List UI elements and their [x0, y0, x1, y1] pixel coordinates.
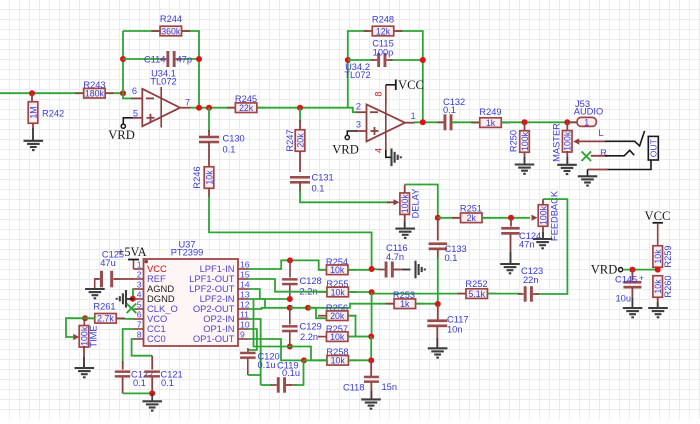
pin 1 output stub [405, 122, 415, 124]
U37 pin 4 DGND [134, 298, 144, 300]
svg-text:TL072: TL072 [344, 70, 370, 80]
svg-text:MASTER: MASTER [552, 123, 562, 162]
svg-text:R251: R251 [460, 203, 482, 213]
ground under R242 [24, 141, 44, 150]
svg-text:22k: 22k [239, 103, 254, 113]
svg-text:100k: 100k [520, 131, 530, 151]
wire pin9 to R258 [249, 339, 305, 360]
svg-text:0.1: 0.1 [312, 184, 325, 194]
capacitor C116 [372, 268, 380, 271]
capacitor C130 [199, 136, 219, 139]
junction ground node C121/C122 [149, 390, 155, 396]
svg-text:180k: 180k [85, 89, 105, 99]
U37 pin 8 CC0 [134, 338, 144, 340]
svg-text:20k: 20k [295, 133, 305, 148]
wire R251 to feedback pot [482, 217, 530, 219]
junction C115 left [345, 57, 351, 63]
pin 7 output stub [180, 107, 191, 109]
svg-text:R248: R248 [372, 15, 394, 25]
junction C128 top [287, 257, 293, 263]
wire C129 node to OP2 node [290, 307, 308, 309]
potentiometer DELAY 100k [394, 199, 400, 205]
U37 pin 1 VCC [134, 268, 144, 270]
pin 3 stub and VRD supply [357, 130, 367, 132]
svg-text:PT2399: PT2399 [171, 247, 204, 257]
junction C117 [435, 301, 441, 307]
svg-text:VRD: VRD [108, 128, 135, 142]
svg-text:CC0: CC0 [147, 333, 166, 344]
svg-text:VRD: VRD [591, 263, 618, 277]
svg-text:1: 1 [411, 111, 416, 121]
capacitor C125 polarized at REF [115, 278, 134, 280]
ground under R250 [515, 165, 535, 174]
ground under C121 [142, 401, 162, 410]
junction R254 column [369, 266, 375, 272]
junction R257 column [368, 334, 374, 340]
svg-text:FEEDBACK: FEEDBACK [549, 190, 559, 241]
supply +5VA at U37 pin 1 [133, 260, 135, 270]
svg-text:C117: C117 [447, 315, 469, 325]
junction R259/R260 [655, 267, 661, 273]
svg-text:7: 7 [137, 319, 142, 329]
svg-text:47u: 47u [100, 258, 116, 268]
resistor R250 [524, 122, 526, 130]
svg-text:10k: 10k [331, 356, 346, 366]
svg-text:1k: 1k [486, 118, 496, 128]
resistor R247 [299, 108, 301, 122]
potentiometer TIME 100k [83, 318, 85, 327]
capacitor C122 [122, 361, 124, 370]
svg-text:1: 1 [584, 117, 589, 127]
wire pin14 to C128 bottom [249, 289, 290, 299]
U34.1 minus mark pin 6 [146, 97, 154, 99]
wire CC0 to C121 [132, 339, 153, 356]
svg-text:0.1: 0.1 [161, 378, 174, 388]
svg-text:OP1-OUT: OP1-OUT [193, 333, 235, 344]
wire R252 to C123 [488, 293, 522, 295]
ground under R260 [648, 308, 668, 317]
junction R255 column [369, 289, 375, 295]
capacitor C123 [518, 293, 524, 295]
svg-text:AUDIO: AUDIO [574, 106, 603, 116]
svg-text:4.7n: 4.7n [386, 252, 404, 262]
junction C114 left [120, 56, 126, 62]
svg-text:360k: 360k [161, 26, 181, 36]
svg-text:8: 8 [137, 329, 142, 339]
svg-text:10n: 10n [447, 325, 463, 335]
wire down to C130 [208, 108, 210, 132]
wire R245 to U34.2 [258, 107, 348, 109]
svg-text:VCC: VCC [645, 209, 671, 223]
wire input net at left [0, 92, 123, 94]
svg-text:100k: 100k [400, 194, 410, 214]
wire C115 row [348, 59, 374, 61]
wire C133 down to R253 node [437, 250, 439, 260]
svg-text:C131: C131 [312, 173, 334, 183]
wire C119 right up to R258 node [294, 360, 304, 385]
U34.2 power rail line [385, 85, 387, 156]
svg-text:8: 8 [374, 91, 384, 96]
junction C114 right [196, 56, 202, 62]
svg-text:0.1u: 0.1u [258, 360, 276, 370]
capacitor C132 [438, 121, 444, 123]
junction C115 right [420, 57, 426, 63]
svg-text:15: 15 [240, 269, 250, 279]
svg-text:R261: R261 [93, 302, 115, 312]
ground under C117 [428, 348, 448, 357]
capacitor C131 [290, 176, 310, 179]
svg-text:R247: R247 [285, 129, 295, 151]
wire R244 top row [123, 30, 160, 32]
capacitor C129 [289, 308, 291, 325]
U37 pin 13 LPF2-IN [238, 298, 249, 300]
svg-text:10: 10 [240, 319, 250, 329]
resistor R261 to VCO [116, 318, 134, 321]
svg-text:10k: 10k [330, 332, 345, 342]
ground under MASTER [557, 165, 577, 174]
svg-text:R259: R259 [663, 245, 673, 267]
svg-text:10k: 10k [330, 265, 345, 275]
svg-text:OUT: OUT [648, 138, 658, 157]
U37 pin 16 LPF1-IN [238, 268, 249, 270]
wire pin15 to R255 [249, 279, 328, 292]
ground under C118 [361, 399, 381, 408]
wire CC1 to C122 [123, 329, 134, 363]
U37 pin 3 AGND [134, 288, 144, 290]
junction C129 top [287, 305, 293, 311]
wire R253 to C117 node [416, 303, 438, 305]
wire FEEDBACK top from C123 [536, 199, 568, 294]
svg-text:0.1: 0.1 [445, 253, 458, 263]
svg-text:47p: 47p [177, 55, 193, 65]
ground under DELAY [395, 229, 415, 238]
ground under C145 [623, 308, 643, 317]
svg-text:9: 9 [240, 329, 245, 339]
svg-text:0.1: 0.1 [133, 378, 146, 388]
wire R256 right jog to column [349, 316, 372, 337]
svg-text:10k: 10k [331, 287, 346, 297]
wire R246 to delay network long run [208, 188, 210, 198]
svg-text:11: 11 [240, 309, 249, 319]
junction R258 column [368, 357, 374, 363]
junction AGND/DGND [130, 296, 136, 302]
ground at jack sleeve [578, 176, 598, 185]
wire C120 bottom to pin11 line [248, 374, 261, 376]
svg-text:VCC: VCC [398, 78, 424, 92]
wire R255 node to R252 [372, 292, 466, 293]
svg-text:10k: 10k [204, 170, 214, 185]
junction R261/TIME [82, 315, 88, 321]
pin 5 stub and VRD supply [132, 117, 142, 119]
U37 pin 7 CC1 [134, 328, 144, 330]
wire C129 bottom to R258 wire [290, 347, 326, 361]
svg-text:2: 2 [356, 102, 361, 112]
svg-text:5.1k: 5.1k [468, 289, 485, 299]
capacitor C128 [289, 260, 291, 277]
svg-text:100k: 100k [563, 131, 573, 151]
pin 6 stub [123, 93, 133, 98]
no-connect X at CLK_O [127, 304, 137, 314]
U37 pin 10 OP1-IN [238, 328, 249, 330]
pin 2 stub [348, 108, 358, 113]
capacitor C145 polarized [631, 270, 633, 281]
svg-text:2.7k: 2.7k [97, 314, 114, 324]
svg-text:100p: 100p [373, 48, 394, 58]
wire R258 node into resistor [304, 359, 327, 361]
svg-text:TIME: TIME [89, 325, 99, 347]
svg-text:C129: C129 [300, 322, 322, 332]
OUT label box [648, 136, 658, 160]
wire OP2 node to R253 [308, 304, 394, 308]
wire pin13 to C129 top [249, 299, 290, 308]
svg-text:10k: 10k [653, 249, 663, 264]
junction output/feedback U34.2 [420, 119, 426, 125]
svg-text:C128: C128 [300, 276, 322, 286]
resistor R260 [653, 276, 663, 298]
svg-text:14: 14 [240, 279, 250, 289]
wire C131 to DELAY wiper [299, 182, 301, 192]
svg-text:0.1u: 0.1u [282, 368, 300, 378]
U37 pin 12 OP2-OUT [238, 308, 249, 310]
svg-text:R246: R246 [192, 166, 202, 188]
U37 pin 9 OP1-OUT [238, 338, 249, 340]
junction delay node [435, 215, 441, 221]
resistor R259 [653, 246, 663, 268]
svg-text:7: 7 [185, 98, 190, 108]
svg-text:C118: C118 [343, 383, 365, 393]
svg-text:2.2n: 2.2n [300, 332, 318, 342]
ground under C125 [85, 289, 105, 298]
svg-text:4: 4 [137, 289, 142, 299]
svg-text:5: 5 [133, 109, 138, 119]
svg-text:0.1: 0.1 [223, 145, 236, 155]
svg-text:20k: 20k [330, 311, 345, 321]
svg-text:1k: 1k [400, 299, 410, 309]
wire C114 row [123, 58, 162, 60]
svg-text:22n: 22n [523, 275, 539, 285]
wire R249 to jack [501, 121, 577, 123]
junction C119 right / R258 left [301, 357, 307, 363]
wire OP2 node jog to R256 [308, 308, 327, 318]
ground left of DGND [127, 298, 134, 300]
junction R250 [522, 119, 528, 125]
wire R248 top right [396, 31, 423, 122]
wire pin13 down to C129 bottom [254, 299, 290, 347]
wire C132 to R249 [452, 121, 480, 123]
wire U34.1 output to R245 [190, 107, 235, 109]
wire pin12 to OP2 out [249, 308, 266, 309]
wire R257 right to column [349, 336, 372, 338]
resistor R246 [208, 142, 210, 167]
wire feedback loop left vertical [122, 31, 124, 93]
jack sleeve wire to ground [606, 160, 651, 170]
svg-text:10k: 10k [653, 279, 663, 294]
ground at U34.2 pin 4 [392, 149, 401, 167]
svg-text:C130: C130 [223, 134, 245, 144]
svg-text:13: 13 [240, 289, 250, 299]
U37 pin 5 CLK_O [134, 308, 144, 310]
svg-text:100k: 100k [538, 205, 548, 225]
ground under TIME [75, 368, 95, 377]
svg-text:R244: R244 [160, 14, 182, 24]
svg-text:5: 5 [137, 299, 142, 309]
wire U34.2 output [414, 121, 444, 123]
svg-text:DELAY: DELAY [410, 189, 420, 219]
wire pin16 via C128 top to R254 [249, 260, 327, 269]
svg-text:R260: R260 [663, 275, 673, 297]
svg-text:16: 16 [240, 259, 250, 269]
wire feedback loop U34.2 left vertical [348, 31, 370, 108]
svg-text:3: 3 [356, 119, 361, 129]
svg-text:3: 3 [137, 279, 142, 289]
ground under C124 [500, 264, 520, 273]
wire R254 right to column [349, 269, 372, 271]
node A junction at U34.1 input [120, 90, 126, 96]
wire column R255 to R257 [371, 292, 373, 336]
svg-text:47n: 47n [519, 240, 535, 250]
junction MASTER pot [564, 119, 570, 125]
capacitor C114 [160, 58, 166, 60]
wire R255 right to column [349, 291, 372, 293]
wire node to R251 [438, 217, 461, 219]
svg-text:12k: 12k [376, 26, 391, 36]
svg-text:+: + [639, 274, 644, 283]
junction C145 [629, 267, 635, 273]
U34.2 minus mark pin 2 [370, 111, 378, 113]
U37 pin 15 LPF1-OUT [238, 278, 249, 280]
svg-text:10u: 10u [616, 294, 632, 304]
junction input/R242 [29, 90, 35, 96]
junction OP2 node [305, 305, 311, 311]
wire pin11 down to C119 [249, 319, 261, 385]
svg-text:15n: 15n [382, 382, 398, 392]
wire column R257 to R258 [370, 337, 372, 361]
capacitor C120 [247, 348, 249, 352]
svg-text:1M: 1M [28, 106, 38, 118]
resistor R242 [31, 93, 33, 103]
svg-text:12: 12 [240, 299, 250, 309]
junction C128 bottom [287, 296, 293, 302]
svg-text:TL072: TL072 [150, 77, 176, 87]
capacitor C118 [370, 360, 372, 376]
junction R247 top [297, 105, 303, 111]
svg-text:C114: C114 [144, 55, 166, 65]
wire R261 node loop to TIME wiper [66, 318, 85, 337]
potentiometer MASTER 100k [566, 122, 568, 131]
svg-text:6: 6 [137, 309, 142, 319]
svg-text:2k: 2k [467, 213, 477, 223]
wire pin10 down to C120 [248, 329, 257, 350]
svg-text:VRD: VRD [332, 143, 359, 157]
ground under FEEDBACK [533, 239, 553, 248]
wire C122 bottom to ground node [123, 392, 153, 394]
svg-text:1: 1 [137, 259, 142, 269]
U37 pin 14 LPF2-OUT [238, 288, 249, 290]
capacitor C119 [261, 384, 272, 386]
wire AGND to DGND junction [132, 289, 135, 299]
U34.1 power rail line [160, 87, 162, 128]
svg-text:L: L [598, 128, 603, 138]
junction output/feedback [196, 105, 202, 111]
capacitor C121 [151, 356, 153, 370]
svg-text:R252: R252 [465, 279, 487, 289]
svg-text:R249: R249 [479, 107, 501, 117]
svg-text:C145: C145 [615, 275, 637, 285]
svg-text:R250: R250 [509, 130, 519, 152]
U37 pin 11 OP2-IN [238, 318, 249, 320]
svg-text:0.1: 0.1 [443, 105, 456, 115]
svg-text:R242: R242 [42, 109, 64, 119]
U34.1 plus mark pin 5 [147, 117, 155, 119]
U34.2 plus mark pin 3 [371, 130, 379, 132]
U37 pin 2 REF [134, 278, 144, 280]
wire DELAY top to node [405, 185, 438, 218]
capacitor C115 [371, 59, 377, 61]
U37 pin 6 VCO [134, 318, 144, 320]
wire R258 right to column [349, 359, 372, 361]
capacitor C124 [510, 218, 512, 227]
connector J53 AUDIO pin 1 [567, 121, 577, 123]
svg-text:6: 6 [132, 86, 137, 96]
capacitor C117 [437, 304, 439, 320]
junction output/C130 [206, 105, 212, 111]
ground right of C116 [416, 261, 425, 279]
svg-text:2: 2 [137, 269, 142, 279]
potentiometer FEEDBACK 100k [532, 215, 538, 221]
svg-text:4: 4 [374, 148, 384, 153]
junction C124 [508, 215, 514, 221]
junction C129 bottom [287, 344, 293, 350]
capacitor C133 [437, 218, 439, 241]
